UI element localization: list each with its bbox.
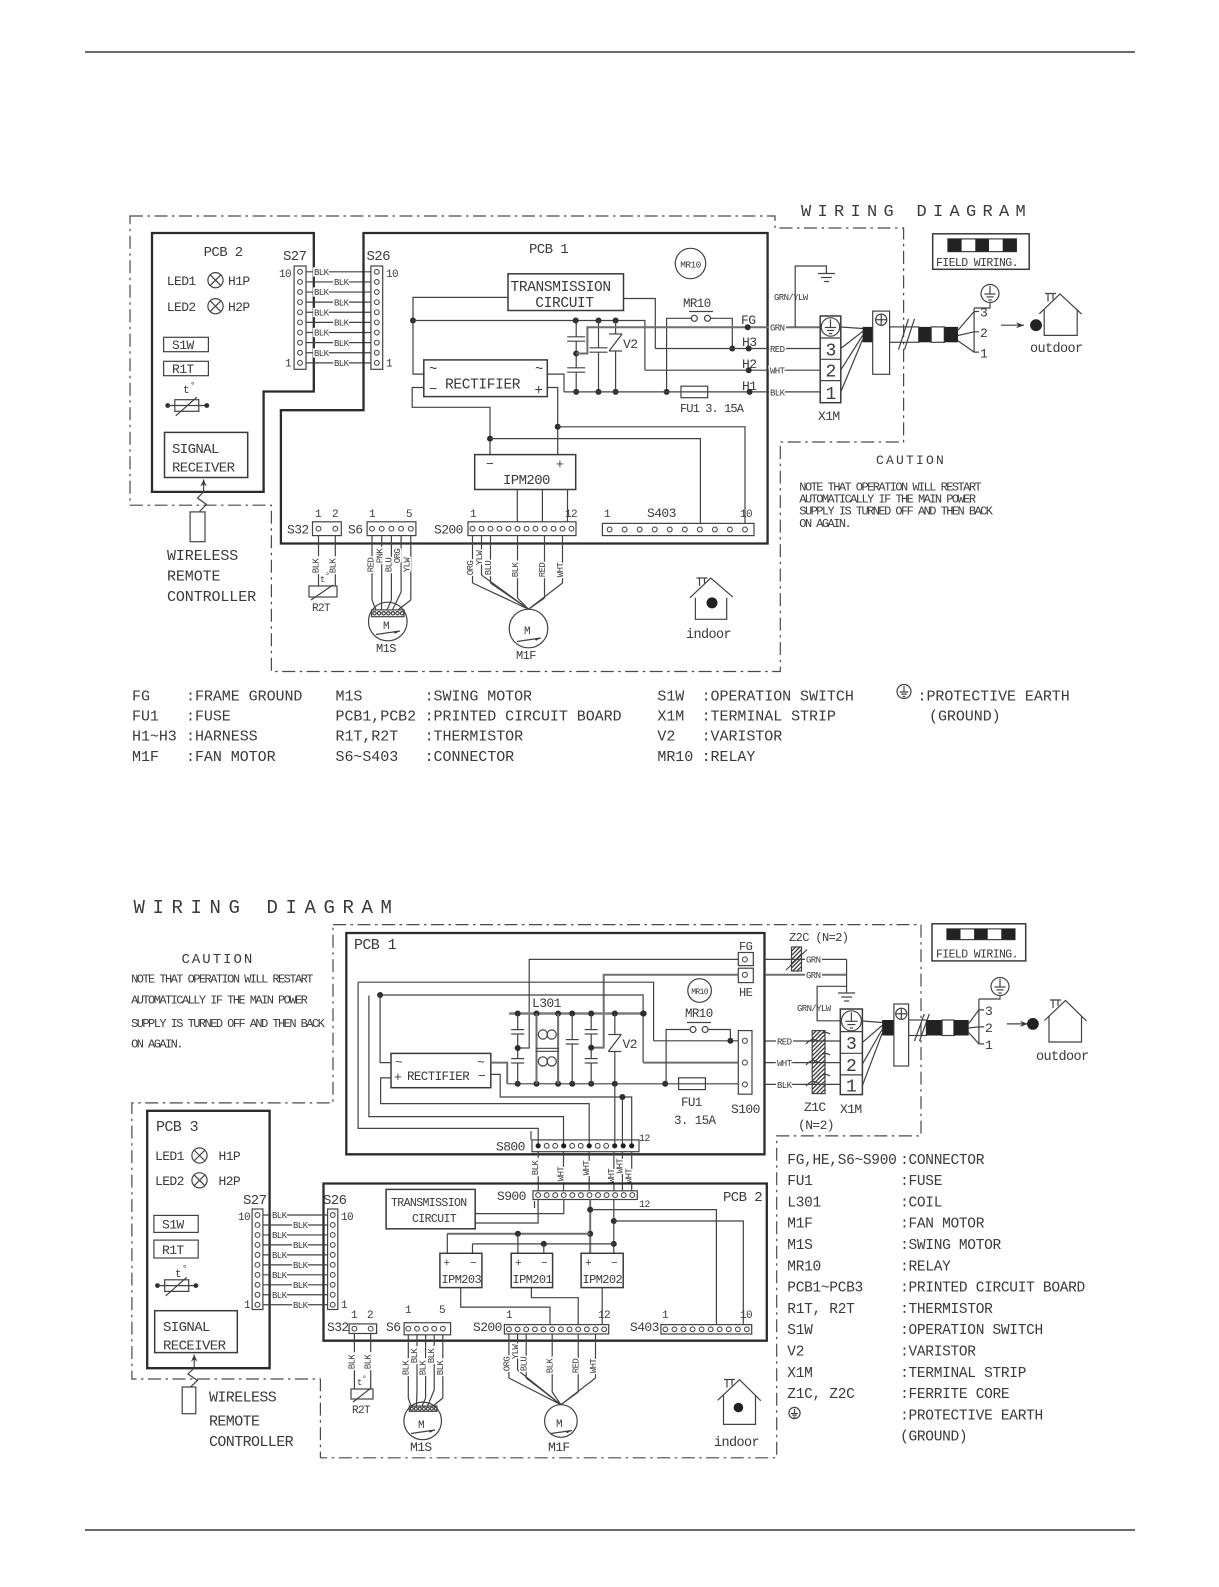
svg-text:FU1: FU1 [681,1096,702,1110]
svg-text:WHT: WHT [556,562,566,578]
svg-text:°: ° [190,381,195,391]
svg-text:FG,HE,S6~S900: FG,HE,S6~S900 [787,1153,896,1169]
switch S1W box (bottom) [154,1215,198,1232]
fan motor M1F (top) [509,609,548,648]
svg-text:BLK: BLK [770,388,786,398]
svg-text::FUSE: :FUSE [900,1174,942,1190]
svg-text:2: 2 [826,363,836,383]
svg-text:X1M: X1M [787,1366,812,1382]
svg-text:BLK: BLK [272,1211,288,1221]
wire bus riser to WHT row (bottom) [380,995,643,1063]
svg-text:BLK: BLK [314,308,330,318]
svg-text:S6~S403: S6~S403 [336,749,399,766]
wire rectifier right to row B (bottom) [491,1063,507,1084]
svg-text:BLK: BLK [511,562,521,578]
svg-text:1: 1 [351,1310,358,1322]
svg-text:−: − [486,457,494,472]
svg-text:BLK: BLK [314,329,330,339]
svg-text:RED: RED [538,563,548,578]
SIGNAL RECEIVER box [165,432,248,477]
wire row B to S800 pin10 [614,1084,616,1146]
zigzag link to remote (bottom) [188,1368,198,1387]
svg-text:BLK: BLK [531,1160,541,1176]
svg-text:S32: S32 [287,523,309,538]
thermistor R1T box [164,361,209,375]
svg-text:IPM201: IPM201 [513,1273,553,1287]
svg-text:10: 10 [386,269,398,281]
svg-text:2: 2 [332,509,338,521]
svg-text:PCB 1: PCB 1 [529,242,568,258]
svg-text:10: 10 [740,1310,752,1322]
svg-text:2: 2 [985,1021,992,1036]
svg-text:FU1 3. 15A: FU1 3. 15A [680,402,745,416]
svg-text:S1W: S1W [657,689,684,706]
svg-text:t: t [183,385,189,397]
top bus wire [413,321,645,371]
svg-text:GRN: GRN [770,324,785,334]
outdoor connection dot (top) [1030,319,1042,331]
wire minus branch to S403 pin7 [490,439,700,524]
svg-text:AUTOMATICALLY IF THE MAIN POWE: AUTOMATICALLY IF THE MAIN POWER [131,993,308,1007]
svg-text:NOTE THAT OPERATION WILL RESTA: NOTE THAT OPERATION WILL RESTART [131,973,313,987]
zigzag link to remote [198,492,207,512]
svg-text::FUSE: :FUSE [186,709,231,726]
top indoor-unit dash-dot boundary [130,216,904,672]
svg-text:MR10: MR10 [685,1007,713,1021]
svg-text:1: 1 [285,359,292,371]
svg-text:X1M: X1M [840,1102,862,1117]
svg-text:BLK: BLK [312,558,322,574]
rectifier box (bottom) [391,1053,491,1087]
svg-text:H3: H3 [742,335,756,350]
svg-text:S900: S900 [497,1189,526,1204]
svg-text:+: + [585,1258,591,1270]
svg-text::OPERATION SWITCH: :OPERATION SWITCH [702,689,854,706]
svg-text:S26: S26 [323,1193,347,1209]
svg-text:RED: RED [572,1359,582,1374]
svg-text::RELAY: :RELAY [702,749,756,766]
inverter module IPM202 [581,1253,623,1287]
wires IPM200 to S200 [516,490,518,522]
svg-text:2: 2 [980,326,987,341]
svg-text:WIRELESS: WIRELESS [209,1390,277,1407]
svg-text:BLK: BLK [546,1358,556,1374]
RED row to X1M (bottom) [765,1040,840,1042]
WHT row to S100 (bottom) [643,1062,738,1064]
svg-text:S1W: S1W [172,338,194,353]
capacitor pair C3 (bottom) [590,1014,592,1030]
svg-text:M: M [556,1419,562,1431]
svg-text::OPERATION SWITCH: :OPERATION SWITCH [900,1323,1043,1339]
svg-text:H1~H3: H1~H3 [132,729,177,746]
connector S100 [738,1031,752,1095]
arrow to outdoor (top) [1001,324,1024,326]
PCB1 board outline (top) [281,233,768,544]
svg-text:°: ° [362,1375,366,1384]
svg-text:2: 2 [367,1310,373,1322]
svg-text:H1P: H1P [228,274,250,289]
svg-text:1: 1 [315,509,322,521]
protective earth terminal (bottom right) [991,978,1009,996]
svg-text:indoor: indoor [686,628,731,643]
svg-text:−: − [478,1069,486,1084]
svg-text:5: 5 [406,509,412,521]
svg-text:BLK: BLK [314,268,330,278]
WHT row to X1M (bottom) [765,1062,840,1064]
svg-text:t: t [175,1269,181,1281]
IPM minus feed row [473,1243,614,1245]
svg-text::HARNESS: :HARNESS [186,729,258,746]
svg-text:BLK: BLK [293,1261,309,1271]
svg-text:S100: S100 [731,1102,760,1117]
varistor V2 (top) [615,321,617,335]
svg-text:10: 10 [341,1212,353,1224]
svg-text:R1T, R2T: R1T, R2T [787,1302,855,1318]
svg-text:Z1C, Z2C: Z1C, Z2C [787,1387,855,1403]
arrow into signal receiver (bottom) [193,1355,195,1368]
svg-text:BLK: BLK [272,1251,288,1261]
svg-text:WHT: WHT [625,1168,635,1184]
svg-text::FAN MOTOR: :FAN MOTOR [900,1217,985,1233]
outdoor house icon (top) [1044,310,1077,336]
wire rectifier minus to IPM200 [412,388,490,455]
main bus row A (bottom) [509,1012,644,1015]
wireless remote controller box [190,512,205,542]
svg-text:3: 3 [980,306,987,321]
svg-text:CONTROLLER: CONTROLLER [209,1434,294,1451]
svg-text:FU1: FU1 [787,1174,812,1190]
transmission circuit box (top) [508,274,624,311]
svg-text:M1S: M1S [336,689,363,706]
svg-text:3: 3 [985,1004,992,1019]
svg-text:TRANSMISSION: TRANSMISSION [391,1197,467,1210]
SIGNAL RECEIVER box (bottom) [155,1311,238,1353]
svg-text:BLK: BLK [347,1354,357,1370]
svg-text:YLW: YLW [402,557,412,573]
svg-text:X1M: X1M [657,709,684,726]
wire contact-left to BLK bus [667,318,692,392]
svg-text:2: 2 [846,1057,856,1077]
wire rectifier right to BLK row [547,374,564,392]
varistor V2 (bottom) [614,1014,616,1035]
svg-text::TERMINAL STRIP: :TERMINAL STRIP [900,1366,1026,1382]
svg-text:S403: S403 [630,1320,659,1335]
svg-text:WIRING DIAGRAM: WIRING DIAGRAM [801,203,1032,222]
svg-text:LED2: LED2 [155,1174,184,1189]
svg-text:1: 1 [604,509,611,521]
svg-text:S6: S6 [386,1320,400,1335]
svg-text:+: + [515,1258,521,1270]
svg-text:SIGNAL: SIGNAL [172,442,219,458]
wire rectifier minus to S800 pin12 [491,1074,632,1145]
svg-text:S32: S32 [327,1320,349,1335]
svg-text:Z2C (N=2): Z2C (N=2) [789,931,848,945]
svg-text:10: 10 [238,1212,250,1224]
svg-text:M1F: M1F [132,749,159,766]
svg-text::COIL: :COIL [900,1195,942,1211]
wire contact-left to BLK row (bottom) [666,1030,690,1084]
svg-text:10: 10 [279,269,291,281]
swing motor M1S (top) [369,602,408,641]
arrow to outdoor (bottom) [1007,1023,1028,1025]
connector HE (bottom) [738,968,753,982]
svg-text:H1: H1 [742,379,757,394]
svg-text:1: 1 [386,359,393,371]
fan motor M1F (bottom) [545,1405,578,1438]
svg-text:CIRCUIT: CIRCUIT [412,1213,457,1226]
svg-text:outdoor: outdoor [1030,342,1083,357]
svg-text:1: 1 [244,1300,251,1312]
wire rectifier input (bottom) [380,995,391,1063]
svg-text:RED: RED [770,345,785,355]
switch S1W box [164,337,209,351]
svg-text:1: 1 [470,509,477,521]
svg-text:REMOTE: REMOTE [167,569,221,586]
svg-text:LED2: LED2 [167,300,196,315]
svg-text:3. 15A: 3. 15A [674,1114,717,1128]
svg-text:CIRCUIT: CIRCUIT [535,296,594,312]
arrow into signal receiver [203,480,205,493]
svg-text::TERMINAL STRIP: :TERMINAL STRIP [702,709,836,726]
svg-text:FU1: FU1 [132,709,159,726]
wire RED net S800 pin1 to S100 pin1 [358,982,538,1146]
indoor house icon (bottom) [724,1395,756,1424]
svg-text:°: ° [182,1264,187,1274]
legend protective earth symbol (bottom) [789,1407,800,1418]
svg-text:indoor: indoor [714,1436,759,1451]
svg-text::CONNECTOR: :CONNECTOR [900,1153,985,1169]
svg-text::CONNECTOR: :CONNECTOR [425,749,515,766]
svg-text:PCB1~PCB3: PCB1~PCB3 [787,1281,863,1297]
svg-text::PRINTED CIRCUIT BOARD: :PRINTED CIRCUIT BOARD [900,1281,1085,1297]
fuse FU1 (top) [681,386,708,398]
svg-text:−: − [429,382,437,398]
thermistor R1T symbol (bottom) [155,1283,160,1288]
PCB1 board outline (bottom) [346,933,764,1154]
svg-text:R1T: R1T [172,362,194,377]
page top rule [85,51,1135,53]
svg-text:WHT: WHT [777,1059,793,1069]
FIELD WIRING legend box (top) [933,234,1029,269]
svg-text:1: 1 [985,1038,993,1053]
Z1C ferrite core [812,1031,825,1094]
svg-text:PCB 2: PCB 2 [204,245,243,261]
svg-text:L301: L301 [787,1195,821,1211]
svg-text:M1F: M1F [516,649,536,663]
field wiring cable (bottom) [862,1021,882,1023]
svg-text:V2: V2 [657,729,675,746]
svg-text:S200: S200 [434,523,463,538]
svg-text::THERMISTOR: :THERMISTOR [900,1302,993,1318]
wire contact-right to RED row (bottom) [708,1030,730,1041]
wire S900 pin10 to IPM202 minus [613,1200,615,1254]
svg-text:S200: S200 [473,1320,502,1335]
bottom indoor-unit dash-dot boundary [132,925,921,1458]
svg-text:BLK: BLK [272,1291,288,1301]
svg-text::FRAME GROUND: :FRAME GROUND [186,689,302,706]
relay MR10 circle symbol (bottom) [688,979,712,1003]
capacitor pair C1 (bottom) [517,1014,519,1030]
svg-text:WHT: WHT [589,1358,599,1374]
svg-text:−: − [611,1258,617,1270]
swing motor M1S (bottom) [404,1402,442,1440]
svg-text:~: ~ [535,362,543,378]
svg-text:1: 1 [369,509,376,521]
wire transmission left to rectifier [413,297,508,374]
svg-text:R2T: R2T [352,1405,371,1417]
svg-text:GRN/YLW: GRN/YLW [797,1004,832,1014]
GRN-YLW wire from X1M earth (bottom) [817,986,847,1021]
svg-text:PCB1,PCB2: PCB1,PCB2 [336,709,417,726]
svg-text:BLK: BLK [293,1301,309,1311]
svg-text:3: 3 [846,1035,856,1055]
S27-S26 BLK ribbon wires (bottom) [263,1214,328,1216]
svg-text::THERMISTOR: :THERMISTOR [425,729,524,746]
svg-text:1: 1 [980,346,988,361]
svg-text:REMOTE: REMOTE [209,1414,260,1431]
svg-text:S27: S27 [243,1193,267,1209]
svg-text::PROTECTIVE EARTH: :PROTECTIVE EARTH [918,689,1070,706]
svg-text:BLK: BLK [314,288,330,298]
ground symbol (bottom) [846,959,848,993]
HE GRN wire to ground (bottom) [765,974,846,976]
WHT row wire (top) [645,369,820,371]
wires S6 to swing motor M1S (bottom) [407,1335,409,1398]
FIELD WIRING legend box (bottom) [932,924,1026,961]
wires cable to terminal bracket (bottom) [969,1010,984,1024]
svg-text:FIELD WIRING.: FIELD WIRING. [936,257,1018,270]
capacitor pair C-a (top) [575,321,577,337]
BLK row to X1M (bottom) [765,1083,840,1085]
wire rectifier plus to S800 pin7 [381,1078,590,1146]
svg-text:M1F: M1F [548,1440,570,1455]
svg-text:S1W: S1W [162,1218,184,1233]
FG wire to cap mid (bottom) [518,959,739,1048]
svg-text:MR10: MR10 [787,1259,821,1275]
svg-text:1: 1 [506,1310,513,1322]
svg-text:HE: HE [739,986,753,1000]
svg-text:12: 12 [565,509,577,521]
svg-text:BLK: BLK [436,1360,446,1376]
svg-text:1: 1 [405,1305,412,1317]
svg-text:RECTIFIER: RECTIFIER [407,1070,470,1084]
svg-text:BLK: BLK [328,558,338,574]
svg-text:ON AGAIN.: ON AGAIN. [131,1038,182,1052]
svg-text:LED1: LED1 [167,274,197,289]
svg-text:M1S: M1S [410,1440,432,1455]
terminal strip X1M (bottom) [840,1009,862,1095]
capacitor C2 (bottom) [571,1014,573,1040]
svg-text:SIGNAL: SIGNAL [163,1320,210,1336]
svg-text:M1S: M1S [376,642,396,656]
page bottom rule [85,1529,1135,1531]
wires S32 to R2T (bottom) [353,1334,355,1390]
wires S200 to fan motor M1F [472,536,474,583]
svg-text:S1W: S1W [787,1323,813,1339]
wire GRN row from cap mid [576,327,820,353]
svg-text:GRN: GRN [806,971,821,981]
svg-text:~: ~ [477,1055,485,1070]
wire branch to S403 pin10 net [614,1221,744,1325]
svg-text::SWING MOTOR: :SWING MOTOR [425,689,532,706]
svg-text:10: 10 [740,509,752,521]
svg-text:BLK: BLK [334,339,350,349]
svg-text:+: + [535,383,543,399]
svg-text:M1F: M1F [787,1217,812,1233]
svg-text:1: 1 [662,1310,669,1322]
RED row wire (top) [655,348,820,350]
svg-text:RED: RED [777,1038,792,1048]
svg-text:+: + [444,1258,450,1270]
svg-text:~: ~ [429,362,437,378]
svg-text:M1S: M1S [787,1238,812,1254]
svg-text:MR10: MR10 [691,988,709,997]
wire contact-right to RED row [711,318,733,348]
svg-text:WIRELESS: WIRELESS [167,548,238,565]
wire IPM201 to S200 [531,1288,578,1325]
wire IPM203 to S200 [461,1288,550,1325]
svg-text:IPM203: IPM203 [442,1273,482,1287]
wires S32 to R2T [318,536,320,586]
protective earth terminal (top right) [981,285,999,303]
svg-text:MR10: MR10 [683,297,711,311]
svg-text:BLK: BLK [272,1231,288,1241]
svg-text:GRN: GRN [806,956,821,966]
svg-text:M: M [418,1420,424,1432]
svg-text:PCB 2: PCB 2 [723,1190,762,1206]
svg-text:RECTIFIER: RECTIFIER [445,378,521,394]
svg-text:MR10: MR10 [680,260,701,271]
svg-text:+: + [556,457,564,472]
svg-text:LED1: LED1 [155,1149,185,1164]
svg-text:12: 12 [598,1310,610,1322]
wires S200 to fan motor M1F (bottom) [508,1334,510,1378]
svg-text:L301: L301 [532,996,562,1011]
svg-text:BLK: BLK [777,1081,793,1091]
svg-text:M: M [383,621,389,633]
inverter module IPM201 [511,1253,552,1287]
wires S800 to S900 with color labels [537,1152,539,1191]
svg-text:H1P: H1P [219,1149,241,1164]
svg-text:WHT: WHT [770,367,786,377]
svg-text:(GROUND): (GROUND) [900,1430,967,1446]
svg-text:V2: V2 [787,1345,804,1361]
svg-text:Z1C: Z1C [804,1100,826,1115]
svg-text:−: − [470,1258,476,1270]
svg-text:outdoor: outdoor [1036,1050,1089,1065]
wire transmission right to RED row [624,299,656,349]
svg-text:R1T: R1T [162,1243,184,1258]
svg-text:(GROUND): (GROUND) [929,709,1001,726]
BLK row wire with fuse [564,391,820,393]
svg-text:BLK: BLK [334,359,350,369]
svg-text:V2: V2 [623,337,637,352]
svg-text:BLK: BLK [293,1281,309,1291]
svg-text:1: 1 [846,1078,856,1098]
HE wire to cap mid (bottom) [591,975,738,1048]
inverter module IPM203 [440,1253,482,1287]
wire plus branch to S403 pin10 [558,427,745,524]
wire net to S800 pin4 [369,996,564,1146]
wire rectifier plus to IPM200 [547,388,557,455]
FG GRN wire to ground (bottom) [765,958,846,960]
svg-text:+: + [394,1070,402,1085]
svg-text:−: − [541,1258,547,1270]
wires S6 to swing motor M1S [371,536,373,600]
transmission circuit box (bottom) [386,1189,475,1228]
svg-text:BLK: BLK [293,1241,309,1251]
svg-text:FG: FG [741,313,755,328]
